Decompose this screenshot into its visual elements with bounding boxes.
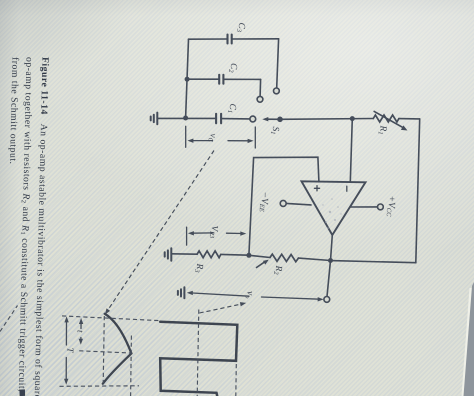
switch S1 (wiper arrow and pole dot)	[262, 117, 283, 123]
svg-text:C2: C2	[227, 63, 238, 73]
dimension vC (ticks)	[186, 126, 256, 148]
variable arrow at R2	[257, 260, 269, 268]
op-amp plus input mark	[314, 186, 319, 191]
dimension t arrow	[79, 318, 84, 345]
dimension T arrow	[64, 316, 69, 384]
caption line 2 cut-off bold word	[19, 389, 25, 396]
capacitor C2	[187, 75, 263, 102]
node junction (bus to C2/C3)	[183, 116, 188, 121]
ground (vo reference)	[178, 287, 185, 298]
svg-text:C1: C1	[226, 103, 237, 113]
wire (to inverting input of op-amp)	[350, 119, 352, 182]
wire (R2 to output node)	[298, 258, 330, 260]
resistor R1	[373, 115, 399, 122]
vo measure arrow (to ground)	[187, 291, 324, 302]
node junction (divider node)	[246, 253, 251, 258]
svg-text:R3: R3	[193, 262, 204, 273]
resistor R3	[197, 251, 221, 258]
svg-text:R1: R1	[377, 124, 388, 134]
variable arrow through R1	[374, 111, 407, 130]
wire (ground to R3)	[171, 253, 197, 255]
dashed level/time lines of waveform	[0, 306, 236, 396]
wire (R3 to divider node)	[221, 253, 249, 256]
node junction (C2 tap on bus)	[185, 77, 190, 82]
svg-text:R2: R2	[272, 264, 283, 275]
capacitor C1	[216, 114, 256, 124]
ground (R3 ground)	[165, 248, 172, 260]
svg-text:C3: C3	[235, 22, 246, 32]
wire (divider node to R2)	[249, 255, 270, 257]
resistor R2	[270, 254, 298, 262]
svg-text:VR3: VR3	[208, 225, 220, 238]
wire (non-inverting feedback loop: up, left, down to divider)	[249, 157, 319, 255]
wire (feedback rail to output node)	[331, 261, 416, 263]
output terminal circle	[324, 297, 330, 303]
wire (capacitor bus vertical)	[186, 39, 189, 118]
wire (output node to output terminal)	[327, 261, 331, 297]
capacitor C3	[189, 35, 280, 94]
ground (capacitor common, left of C1)	[151, 113, 158, 125]
waveform vC exponential curve	[103, 314, 132, 384]
svg-text:+VCC: +VCC	[385, 195, 397, 217]
dimension VR3 (tick)	[186, 227, 188, 245]
svg-text:Figure 11-14 An op-amp astab: Figure 11-14 An op-amp astable multivibr…	[32, 57, 51, 396]
dimension vC arrows	[187, 139, 253, 144]
svg-text:−VEE: −VEE	[258, 191, 270, 212]
op-amp minus input mark	[346, 186, 348, 191]
op-amp U1 triangle	[302, 181, 366, 235]
node junction (output node)	[328, 258, 333, 263]
svg-text:S1: S1	[269, 126, 280, 134]
svg-text:vo: vo	[244, 291, 256, 299]
svg-text:from the Schmitt output.: from the Schmitt output.	[7, 57, 20, 165]
wire (inverting-node line: ground to C1 left plate)	[157, 117, 216, 119]
wire (switch pole to R1 / op-amp inverting branch)	[280, 118, 373, 121]
waveform vo square wave	[160, 322, 237, 396]
svg-text:vC: vC	[207, 133, 219, 142]
page edge highlight	[463, 288, 471, 396]
svg-text:T: T	[65, 347, 75, 353]
op-amp interior speckle	[322, 198, 341, 229]
dashed pointer to vo label	[200, 304, 243, 313]
node junction (inverting input tap)	[350, 116, 355, 121]
svg-text:t: t	[75, 330, 85, 333]
photo background (dark band beyond page edge)	[464, 282, 474, 396]
wire (right feedback rail down)	[416, 119, 420, 263]
dashed pointer to vC waveform	[106, 151, 214, 313]
negative supply -VEE pin	[280, 200, 311, 206]
positive supply +Vcc pin	[350, 204, 383, 210]
dimension VR3 arrows	[188, 231, 246, 236]
wire (R1 to right feedback rail)	[399, 118, 420, 120]
wire (op-amp output down)	[331, 235, 333, 261]
